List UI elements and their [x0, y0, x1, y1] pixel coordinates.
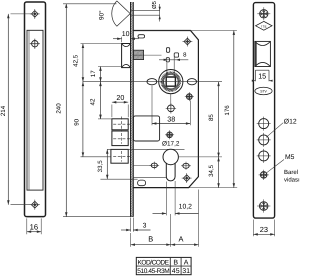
deadbolt top extension line [107, 148, 184, 150]
code table [136, 257, 191, 274]
plate hole M5 countersunk [260, 172, 267, 179]
svg-text:B: B [148, 235, 153, 244]
dimension 10 latch projection [121, 37, 123, 43]
deadbolt box 3 [111, 149, 128, 163]
latch centerline [133, 54, 161, 56]
svg-text:10: 10 [122, 31, 130, 38]
dimension 176 case height [233, 31, 235, 188]
square hole c [166, 58, 169, 62]
case bottom edge extension [189, 187, 238, 189]
dimension 33,5 [106, 149, 108, 179]
latch front view on plate [255, 41, 271, 66]
dimension 3 faceplate thickness [130, 218, 132, 232]
deadbolt box 2 [112, 131, 128, 146]
svg-text:Barel: Barel [284, 169, 298, 176]
svg-text:M5: M5 [285, 154, 295, 161]
brand badge [255, 87, 272, 94]
dimension 23 plate width [252, 220, 254, 237]
dimension 38 [151, 86, 153, 126]
svg-text:45: 45 [172, 268, 180, 275]
follower vertical centerline [170, 93, 172, 112]
dimension 240 overall height [65, 4, 67, 217]
dimension 20 deadbolt width [111, 105, 113, 118]
slot bottom of case [138, 180, 146, 186]
svg-text:TSE: TSE [261, 24, 267, 28]
square hole a [166, 48, 169, 53]
svg-text:90°: 90° [98, 10, 105, 20]
dimension 90 [82, 82, 84, 157]
hole above cylinder countersunk [167, 132, 173, 138]
svg-text:38: 38 [167, 114, 175, 123]
svg-text:STV: STV [260, 90, 267, 94]
lock case outline side view [133, 31, 198, 188]
svg-text:15: 15 [258, 72, 266, 81]
faceplate recess [27, 30, 43, 190]
case screw hole countersunk [186, 94, 192, 100]
svg-text:B: B [173, 260, 178, 267]
plate hole 2 [259, 135, 269, 145]
slot top of case [138, 35, 145, 38]
dimension 10,2 cylinder stem [165, 182, 167, 216]
cylinder fixing hole right [183, 163, 189, 168]
svg-text:42,5: 42,5 [73, 54, 80, 67]
latch body in case (hatched) [133, 50, 143, 59]
svg-text:90: 90 [74, 118, 81, 125]
svg-text:A: A [179, 235, 184, 244]
dimension 15 latch width [255, 69, 269, 71]
svg-text:vidası: vidası [284, 177, 300, 184]
svg-text:10,2: 10,2 [179, 204, 192, 211]
svg-text:176: 176 [224, 105, 231, 116]
plate hole 3 [259, 151, 269, 161]
svg-text:240: 240 [55, 103, 62, 114]
svg-text:33,5: 33,5 [97, 160, 104, 173]
svg-text:17: 17 [90, 70, 97, 77]
svg-text:85: 85 [208, 114, 215, 121]
oblong hole right [187, 79, 196, 85]
dimension 42,5 [82, 44, 84, 82]
latch bolt side view [122, 44, 131, 68]
plate hole bottom countersunk [259, 202, 268, 211]
internal opening [133, 116, 159, 141]
strike plate outline [253, 3, 274, 219]
cylinder fixing hole left [151, 163, 157, 168]
svg-text:Ø5: Ø5 [151, 1, 158, 9]
plate screw hole top countersunk [260, 10, 268, 18]
square hole extension lines [166, 62, 168, 77]
follower knurled nut with 8mm square [159, 70, 183, 94]
dimension diameter 5 latch pivot [131, 10, 160, 12]
label M5 [267, 160, 285, 173]
square hole b [174, 53, 178, 57]
faceplate front view outline [25, 2, 46, 217]
dimensions B and A backset [170, 214, 172, 247]
dimension 34,5 [218, 157, 220, 188]
plate hole 1 [259, 119, 269, 129]
svg-text:23: 23 [260, 225, 268, 234]
faceplate screw hole mid [32, 41, 38, 47]
svg-text:Ø12: Ø12 [284, 119, 297, 126]
case top edge extension [133, 30, 237, 32]
diamond certification logo [256, 21, 272, 30]
deadbolt box 1 [112, 119, 128, 130]
svg-text:42: 42 [90, 98, 97, 105]
dimension 85 follower to cylinder [218, 82, 220, 157]
euro cylinder profile [163, 149, 178, 164]
dimension 42 [100, 82, 102, 119]
label diameter 12 [266, 123, 283, 138]
svg-text:510.45-R3M: 510.45-R3M [137, 268, 170, 275]
svg-text:3: 3 [143, 223, 147, 230]
dimension 214 faceplate screw spacing [7, 14, 9, 205]
case screw hole top-right countersunk [184, 38, 191, 45]
svg-text:KOD/CODE: KOD/CODE [138, 260, 170, 267]
svg-text:31: 31 [182, 268, 190, 275]
svg-text:214: 214 [0, 105, 7, 116]
oblong hole left [147, 79, 157, 85]
dimension 16 faceplate width [26, 218, 28, 234]
svg-text:20: 20 [116, 93, 124, 102]
svg-text:A: A [184, 260, 189, 267]
faceplate screw hole top [32, 11, 39, 18]
dimension 8 spindle square [159, 59, 188, 61]
case screw hole bottom countersunk [183, 175, 190, 182]
lock faceplate side section (hatched) [130, 2, 132, 217]
slot top extension line [100, 178, 137, 180]
follower horizontal centerline [83, 81, 222, 83]
round hole on centerline [168, 105, 175, 112]
svg-text:16: 16 [30, 222, 38, 231]
svg-text:34,5: 34,5 [208, 164, 215, 177]
svg-text:Ø17,2: Ø17,2 [162, 141, 180, 148]
case internal line [133, 176, 166, 178]
faceplate screw hole bottom countersunk [31, 201, 38, 208]
dimension 17 [100, 67, 102, 82]
latch 90 degree swing arc [117, 1, 130, 26]
